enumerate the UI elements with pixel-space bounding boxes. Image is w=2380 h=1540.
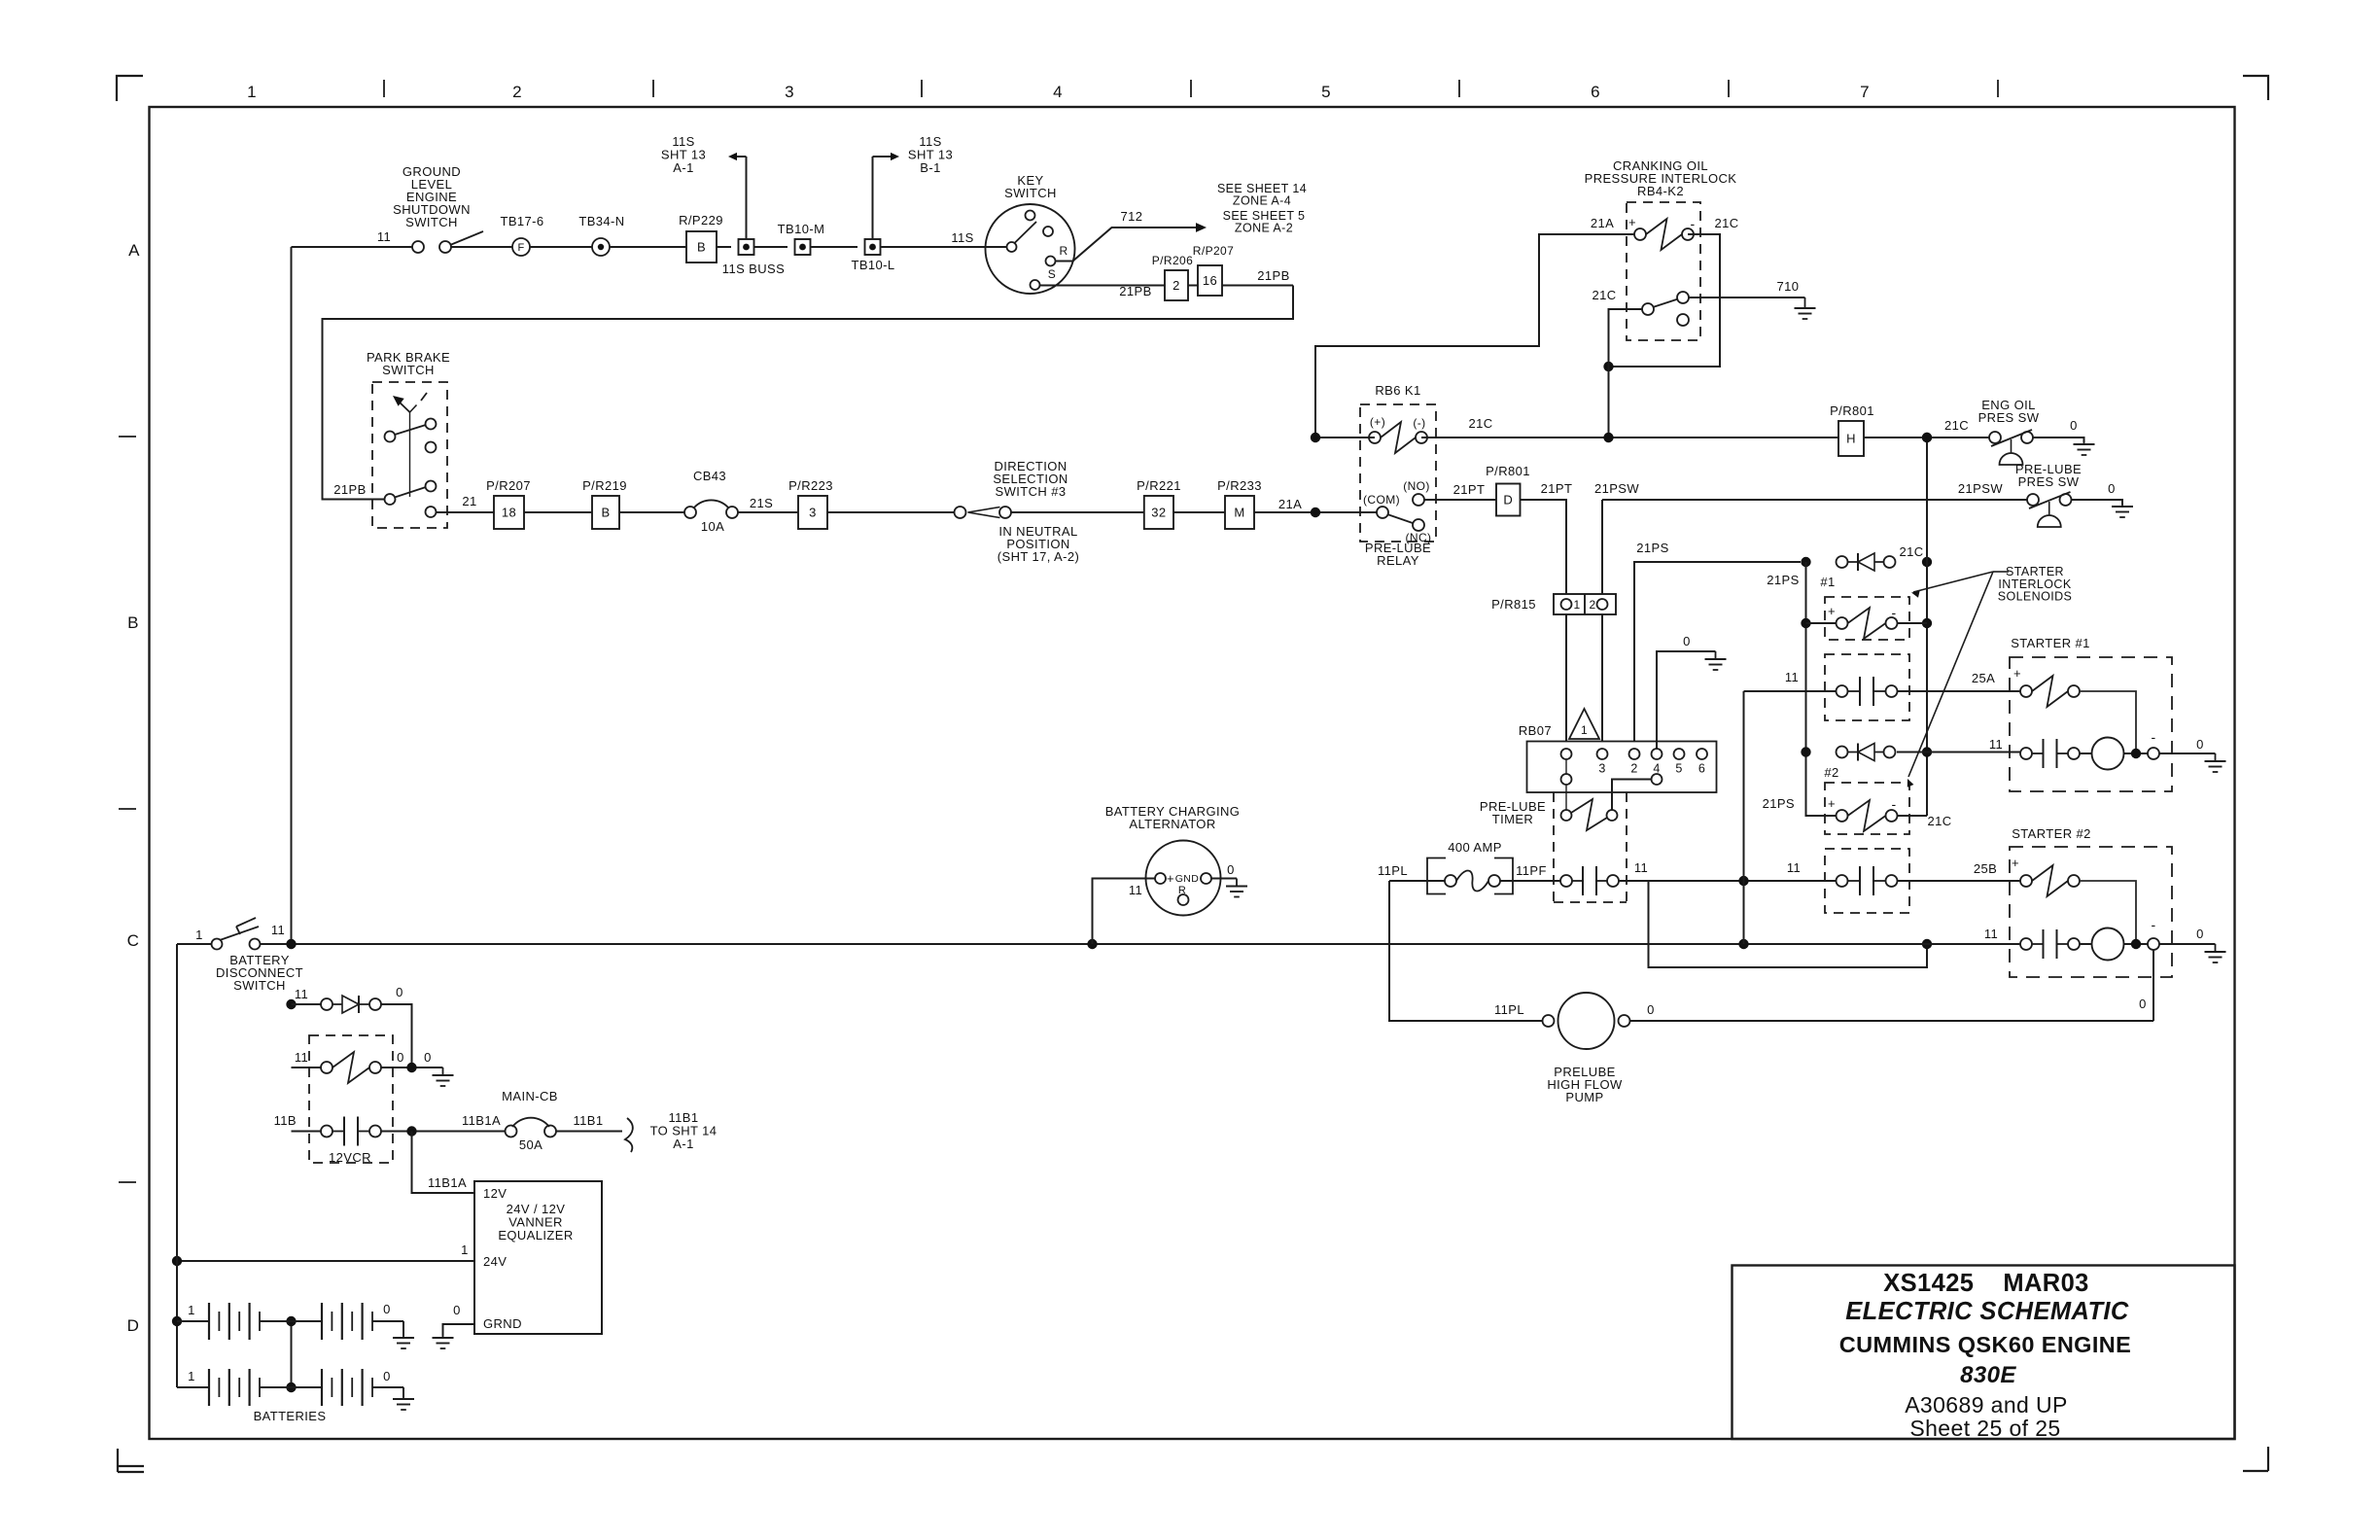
svg-text:#2: #2 <box>1824 765 1838 780</box>
svg-text:MAIN-CB: MAIN-CB <box>502 1089 558 1103</box>
svg-text:F: F <box>517 242 524 254</box>
svg-text:+: + <box>1167 871 1174 886</box>
svg-text:S: S <box>1048 267 1056 281</box>
svg-text:(COM): (COM) <box>1363 493 1400 507</box>
svg-text:B-1: B-1 <box>920 160 940 175</box>
svg-text:(NO): (NO) <box>1403 479 1430 493</box>
svg-text:11PL: 11PL <box>1378 863 1408 878</box>
svg-text:0: 0 <box>383 1302 391 1316</box>
svg-text:RB4-K2: RB4-K2 <box>1637 184 1684 198</box>
svg-text:0: 0 <box>1683 634 1691 648</box>
svg-text:11: 11 <box>1129 883 1142 897</box>
svg-text:+: + <box>2012 856 2019 870</box>
svg-text:21PT: 21PT <box>1541 481 1573 496</box>
svg-text:32: 32 <box>1151 506 1166 520</box>
svg-text:3: 3 <box>1598 762 1605 776</box>
svg-text:21C: 21C <box>1592 288 1616 302</box>
svg-text:1: 1 <box>461 1242 469 1257</box>
svg-text:21PS: 21PS <box>1636 541 1668 555</box>
svg-text:0: 0 <box>1227 862 1235 877</box>
svg-text:+: + <box>1828 604 1836 618</box>
svg-text:12V: 12V <box>483 1186 507 1201</box>
svg-text:SWITCH #3: SWITCH #3 <box>996 484 1067 499</box>
svg-text:R: R <box>1059 244 1067 258</box>
svg-text:P/R221: P/R221 <box>1137 478 1181 493</box>
svg-text:-: - <box>2151 729 2155 745</box>
svg-text:11: 11 <box>1787 860 1801 875</box>
svg-text:A-1: A-1 <box>673 160 693 175</box>
svg-text:11PF: 11PF <box>1516 863 1547 878</box>
svg-text:B: B <box>601 506 610 520</box>
svg-text:(SHT 17, A-2): (SHT 17, A-2) <box>997 549 1079 564</box>
svg-text:1: 1 <box>188 1369 195 1383</box>
svg-text:TB10-L: TB10-L <box>851 258 894 272</box>
svg-text:0: 0 <box>396 985 403 999</box>
svg-text:11B1: 11B1 <box>574 1113 604 1128</box>
svg-text:1: 1 <box>188 1303 195 1317</box>
svg-text:CB43: CB43 <box>693 469 726 483</box>
svg-text:0: 0 <box>2108 481 2116 496</box>
svg-text:6: 6 <box>1591 83 1600 101</box>
svg-text:11: 11 <box>377 229 391 244</box>
svg-text:21PT: 21PT <box>1453 482 1486 497</box>
svg-text:-: - <box>2151 917 2155 932</box>
svg-text:SWITCH: SWITCH <box>382 363 435 377</box>
svg-text:+: + <box>1628 215 1636 229</box>
svg-text:SWITCH: SWITCH <box>1004 186 1057 200</box>
svg-text:ZONE A-2: ZONE A-2 <box>1235 222 1293 235</box>
svg-text:RB6 K1: RB6 K1 <box>1375 383 1420 398</box>
svg-text:PUMP: PUMP <box>1565 1090 1603 1104</box>
svg-text:4: 4 <box>1053 83 1063 101</box>
svg-text:P/R207: P/R207 <box>486 478 531 493</box>
svg-text:R/P207: R/P207 <box>1193 244 1234 258</box>
svg-text:P/R223: P/R223 <box>788 478 833 493</box>
svg-text:11B1A: 11B1A <box>462 1113 501 1128</box>
svg-text:21C: 21C <box>1927 814 1951 828</box>
svg-text:21PB: 21PB <box>1119 284 1151 298</box>
svg-text:11: 11 <box>1984 927 1998 941</box>
svg-text:21C: 21C <box>1944 418 1969 433</box>
svg-text:R: R <box>1178 885 1186 896</box>
svg-text:CUMMINS QSK60 ENGINE: CUMMINS QSK60 ENGINE <box>1839 1332 2132 1357</box>
svg-text:A: A <box>128 241 140 260</box>
svg-text:0: 0 <box>397 1050 404 1065</box>
svg-text:11B1A: 11B1A <box>428 1175 467 1190</box>
svg-text:RB07: RB07 <box>1519 723 1552 738</box>
svg-text:TB17-6: TB17-6 <box>500 214 543 228</box>
svg-text:24V: 24V <box>483 1254 507 1269</box>
svg-text:5: 5 <box>1675 762 1682 776</box>
svg-text:-: - <box>1891 796 1896 812</box>
svg-text:11B: 11B <box>274 1113 297 1128</box>
svg-text:3: 3 <box>785 83 794 101</box>
svg-text:TB10-M: TB10-M <box>778 222 825 236</box>
svg-text:11: 11 <box>295 987 308 1001</box>
svg-text:-: - <box>1690 216 1695 231</box>
svg-text:3: 3 <box>809 506 817 520</box>
svg-text:STARTER #2: STARTER #2 <box>2012 826 2091 841</box>
svg-text:TB34-N: TB34-N <box>578 214 624 228</box>
svg-text:PRES SW: PRES SW <box>2018 474 2080 489</box>
svg-text:2: 2 <box>1630 762 1637 776</box>
svg-text:21: 21 <box>462 494 476 508</box>
svg-text:6: 6 <box>1698 762 1705 776</box>
svg-text:P/R219: P/R219 <box>582 478 627 493</box>
svg-text:EQUALIZER: EQUALIZER <box>498 1228 573 1242</box>
svg-text:2: 2 <box>1172 278 1180 293</box>
svg-text:ZONE A-4: ZONE A-4 <box>1233 194 1291 208</box>
svg-text:21PB: 21PB <box>1257 268 1289 283</box>
svg-text:P/R233: P/R233 <box>1217 478 1262 493</box>
svg-text:21C: 21C <box>1899 544 1923 559</box>
svg-text:GRND: GRND <box>483 1316 522 1331</box>
svg-text:0: 0 <box>2139 997 2147 1011</box>
svg-text:RELAY: RELAY <box>1377 553 1419 568</box>
svg-text:BATTERIES: BATTERIES <box>254 1409 327 1423</box>
svg-text:C: C <box>127 931 140 950</box>
svg-text:D: D <box>1503 493 1513 507</box>
svg-text:PRES SW: PRES SW <box>1978 410 2040 425</box>
svg-text:0: 0 <box>383 1369 391 1383</box>
svg-text:-: - <box>1891 605 1896 620</box>
svg-text:ALTERNATOR: ALTERNATOR <box>1129 817 1215 831</box>
svg-text:21PSW: 21PSW <box>1958 481 2003 496</box>
svg-text:11: 11 <box>1785 670 1799 684</box>
svg-text:0: 0 <box>2196 927 2204 941</box>
svg-text:21S: 21S <box>750 496 773 510</box>
svg-text:H: H <box>1846 432 1856 446</box>
svg-text:D: D <box>127 1316 140 1335</box>
svg-text:(+): (+) <box>1370 415 1385 429</box>
svg-text:21A: 21A <box>1591 216 1614 230</box>
svg-text:25B: 25B <box>1974 861 1997 876</box>
svg-text:R/P229: R/P229 <box>679 213 723 227</box>
svg-text:GND: GND <box>1175 873 1200 885</box>
svg-text:P/R801: P/R801 <box>1486 464 1530 478</box>
svg-text:16: 16 <box>1203 273 1217 288</box>
svg-text:SWITCH: SWITCH <box>405 215 458 229</box>
svg-text:21A: 21A <box>1278 497 1302 511</box>
svg-text:Sheet 25 of 25: Sheet 25 of 25 <box>1909 1416 2060 1441</box>
svg-text:P/R815: P/R815 <box>1491 597 1536 612</box>
svg-text:11: 11 <box>271 923 285 937</box>
svg-text:1: 1 <box>1573 598 1580 612</box>
svg-text:21PSW: 21PSW <box>1594 481 1639 496</box>
svg-text:0: 0 <box>453 1303 461 1317</box>
svg-text:830E: 830E <box>1960 1362 2016 1388</box>
svg-text:A30689 and UP: A30689 and UP <box>1905 1392 2068 1417</box>
svg-text:2: 2 <box>1589 598 1595 612</box>
svg-text:712: 712 <box>1121 209 1143 224</box>
svg-text:+: + <box>1828 796 1836 811</box>
svg-text:400 AMP: 400 AMP <box>1448 840 1502 855</box>
svg-text:0: 0 <box>2070 418 2078 433</box>
svg-text:7: 7 <box>1860 83 1870 101</box>
svg-text:(-): (-) <box>1413 416 1425 430</box>
svg-text:M: M <box>1234 506 1244 520</box>
svg-text:21PS: 21PS <box>1763 796 1795 811</box>
svg-text:25A: 25A <box>1972 671 1995 685</box>
svg-text:21C: 21C <box>1714 216 1738 230</box>
svg-text:11: 11 <box>295 1050 308 1065</box>
svg-text:11S BUSS: 11S BUSS <box>722 262 785 276</box>
svg-text:0: 0 <box>2196 737 2204 752</box>
svg-text:P/R801: P/R801 <box>1830 403 1874 418</box>
svg-text:12VCR: 12VCR <box>329 1150 371 1165</box>
svg-text:18: 18 <box>502 506 516 520</box>
svg-text:2: 2 <box>512 83 522 101</box>
svg-text:B: B <box>127 613 139 632</box>
svg-text:0: 0 <box>1647 1002 1655 1017</box>
svg-text:B: B <box>697 240 706 255</box>
svg-text:1: 1 <box>195 927 203 942</box>
svg-text:XS1425 MAR03: XS1425 MAR03 <box>1883 1270 2089 1297</box>
svg-text:P/R206: P/R206 <box>1152 254 1193 267</box>
svg-text:50A: 50A <box>519 1137 542 1152</box>
svg-text:11: 11 <box>1634 860 1648 875</box>
svg-text:1: 1 <box>1581 723 1588 737</box>
svg-text:SOLENOIDS: SOLENOIDS <box>1998 590 2073 604</box>
svg-text:21C: 21C <box>1468 416 1492 431</box>
svg-text:A-1: A-1 <box>673 1137 693 1151</box>
svg-text:5: 5 <box>1321 83 1331 101</box>
svg-text:10A: 10A <box>701 519 724 534</box>
svg-text:11PL: 11PL <box>1494 1002 1524 1017</box>
svg-text:0: 0 <box>424 1050 432 1065</box>
svg-text:1: 1 <box>247 83 257 101</box>
svg-text:+: + <box>2013 666 2021 681</box>
svg-text:11: 11 <box>1989 737 2003 752</box>
svg-text:#1: #1 <box>1820 575 1835 589</box>
svg-text:TIMER: TIMER <box>1492 812 1533 826</box>
svg-text:710: 710 <box>1777 279 1800 294</box>
svg-text:11S: 11S <box>951 230 973 245</box>
svg-text:STARTER #1: STARTER #1 <box>2011 636 2090 650</box>
svg-text:21PB: 21PB <box>333 482 366 497</box>
svg-text:21PS: 21PS <box>1767 573 1799 587</box>
svg-text:SWITCH: SWITCH <box>233 978 286 993</box>
svg-text:ELECTRIC SCHEMATIC: ELECTRIC SCHEMATIC <box>1845 1298 2129 1325</box>
